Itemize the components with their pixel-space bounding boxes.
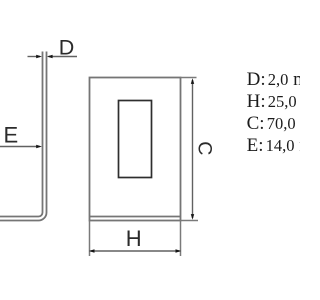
side view inner profile (L bend, left surface) [0,52,43,217]
svg-text:D: 2,0 mm: D: 2,0 mm [247,69,300,90]
dimension E: leader line with arrow [0,145,42,148]
side view outer profile (L bend, right surface) [0,52,47,221]
svg-text:C: 70,0 mm: C: 70,0 mm [247,113,300,134]
svg-text:D: D [59,36,75,60]
front view outer rectangle [90,78,181,221]
svg-text:H: 25,0 mm: H: 25,0 mm [247,91,300,112]
svg-text:C: C [193,141,215,155]
front view slot rectangle [119,101,152,178]
legend line 3: C value [247,113,320,134]
label C (rotated) [193,141,215,155]
svg-text:E: E [4,123,19,148]
dimension C: bottom extension line [181,220,199,222]
legend line 2: H value [247,91,320,112]
dimension H: horizontal dimension line with arrows [89,249,181,252]
svg-text:E: 14,0 mm: E: 14,0 mm [247,135,300,156]
dimension H: right extension line [180,221,182,257]
front view bottom bend line [90,216,181,218]
legend line 4: E value [247,135,320,156]
dimension C: vertical dimension line with arrows [191,78,194,220]
svg-text:H: H [126,226,142,251]
dimension C: top extension line [181,77,197,79]
dimension H: left extension line [89,221,91,257]
label H [126,226,142,251]
legend line 1: D value [247,69,320,90]
dimension D: dimension line right tail with arrow [47,55,77,58]
label D [59,36,75,60]
dimension D: dimension line left tail with arrow [28,55,42,58]
label E [4,123,19,148]
